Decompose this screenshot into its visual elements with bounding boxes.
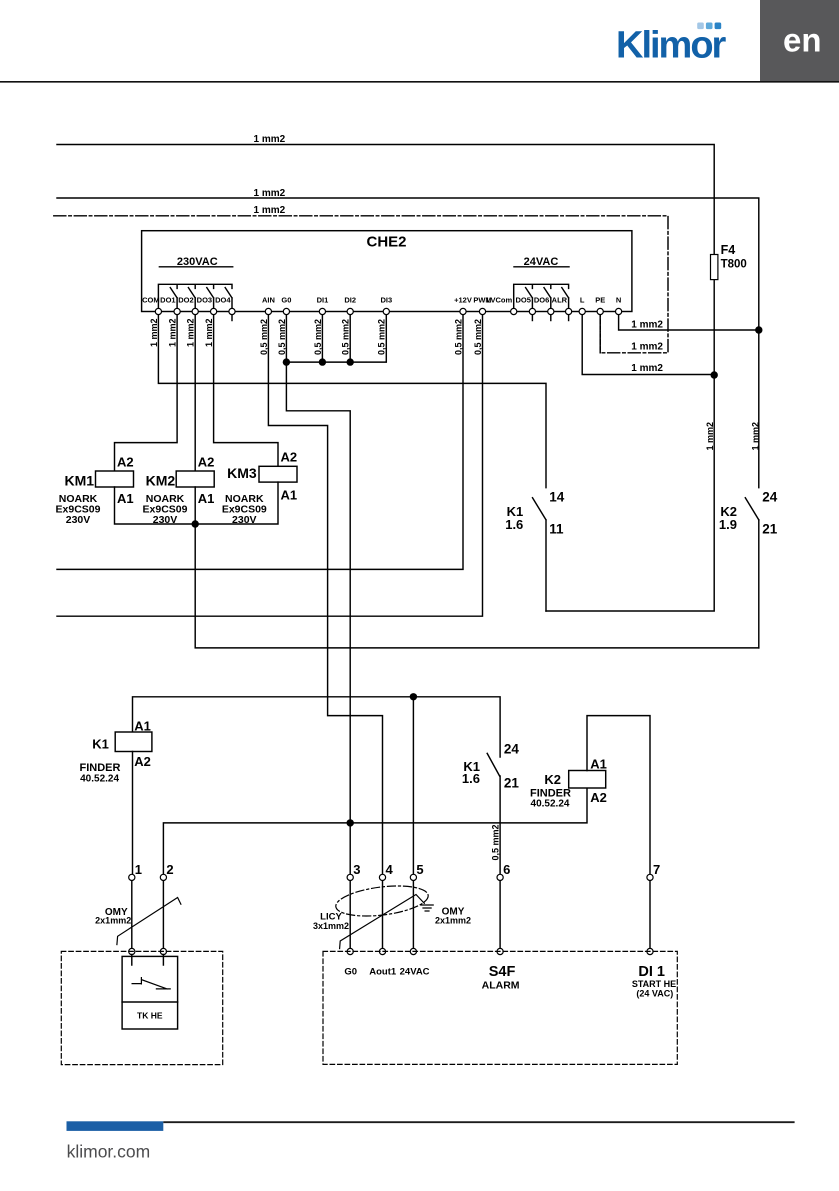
contactor KM2 coil [176, 471, 214, 487]
wire G0 to terminal 3 [286, 312, 350, 878]
svg-text:A2: A2 [281, 449, 298, 464]
wire L supply top 1 mm2 [57, 145, 714, 255]
terminal 5 circle [410, 874, 416, 880]
svg-text:11: 11 [549, 522, 564, 537]
wire KM coils A1 bus [115, 482, 759, 648]
svg-text:A1: A1 [134, 719, 151, 734]
svg-text:1 mm2: 1 mm2 [751, 422, 761, 451]
svg-text:en: en [783, 22, 822, 59]
DO1 contact blade [170, 288, 177, 312]
svg-text:KM3: KM3 [227, 465, 257, 481]
TKHE thermal contact symbol [132, 978, 170, 989]
wire L terminal to node 1 mm2 [582, 312, 714, 375]
svg-text:1 mm2: 1 mm2 [631, 320, 663, 331]
svg-text:ALARM: ALARM [482, 980, 520, 992]
earth shield symbol [421, 905, 433, 911]
DO2 contact blade [188, 288, 195, 312]
svg-text:14: 14 [549, 490, 565, 505]
node DI2 junction [347, 358, 354, 365]
svg-text:1 mm2: 1 mm2 [254, 205, 286, 216]
svg-text:A1: A1 [117, 491, 134, 506]
DO3 contact blade [207, 288, 214, 312]
LICY cable ellipse [334, 881, 430, 920]
ALR stub [568, 312, 570, 321]
svg-text:PE: PE [595, 295, 605, 304]
svg-text:1 mm2: 1 mm2 [186, 318, 196, 347]
wire N terminal to node 1 mm2 [619, 312, 759, 331]
cable marker OMY 2x1mm2 terminals 1-2 [117, 898, 181, 945]
24VAC underline [514, 266, 569, 268]
wire terminal 1 to external [131, 881, 133, 952]
wire terminal 5 branch [412, 697, 414, 878]
wire L below fuse to node [713, 280, 715, 375]
svg-text:1 mm2: 1 mm2 [254, 134, 286, 145]
terminal 1 circle [129, 874, 135, 880]
wire terminal 2 to external [162, 881, 164, 952]
wire PE dash-dot 1 mm2 [54, 216, 668, 353]
svg-text:6: 6 [503, 862, 510, 877]
svg-text:KM1: KM1 [65, 472, 95, 488]
node N junction [755, 326, 762, 333]
svg-text:Aout1: Aout1 [369, 967, 397, 978]
svg-text:1 mm2: 1 mm2 [254, 188, 286, 199]
wire +12V continuation 0,5 mm2 [57, 312, 463, 570]
svg-text:DO1: DO1 [160, 295, 175, 304]
svg-text:DO5: DO5 [515, 295, 530, 304]
terminal 7 circle [647, 874, 653, 880]
svg-text:24VAC: 24VAC [400, 967, 430, 978]
svg-text:AIN: AIN [262, 295, 275, 304]
svg-text:START HE: START HE [632, 979, 676, 989]
fuse F4 T800 [711, 255, 718, 280]
svg-text:0,5 mm2: 0,5 mm2 [473, 319, 483, 355]
svg-text:230VAC: 230VAC [177, 256, 218, 268]
external terminal 5 circle [410, 948, 416, 954]
terminal ALR pin circle [566, 308, 572, 314]
svg-text:7: 7 [653, 862, 660, 877]
svg-text:24: 24 [504, 742, 520, 757]
external terminal 2 circle [160, 948, 166, 954]
svg-text:0,5 mm2: 0,5 mm2 [491, 824, 501, 860]
svg-text:A2: A2 [198, 454, 215, 469]
svg-text:0,5 mm2: 0,5 mm2 [453, 319, 463, 355]
node L fuse junction [711, 371, 718, 378]
DO4 stub [231, 312, 233, 321]
wire AIN to terminal 4 [268, 312, 382, 878]
terminal N pin circle [616, 308, 622, 314]
footer bar [67, 1121, 164, 1131]
terminal +12V pin circle [460, 308, 466, 314]
K1 coil FINDER 40.52.24 [115, 732, 152, 752]
svg-text:0,5 mm2: 0,5 mm2 [259, 319, 269, 355]
wire DO2 to KM2 A2 [194, 312, 196, 472]
svg-text:A2: A2 [590, 790, 607, 805]
svg-text:0,5 mm2: 0,5 mm2 [341, 319, 351, 355]
svg-text:(24 VAC): (24 VAC) [636, 989, 673, 999]
wire G0 bus terminal 2 to K2 A2 [163, 788, 587, 877]
external terminal 7 circle [647, 948, 653, 954]
TKHE thermostat box [122, 956, 178, 1029]
Klimor logo [616, 23, 727, 67]
svg-text:1 mm2: 1 mm2 [168, 318, 178, 347]
terminal L pin circle [579, 308, 585, 314]
svg-text:COM: COM [142, 295, 160, 304]
terminal DO5 pin circle [529, 308, 535, 314]
svg-text:F4: F4 [721, 243, 736, 257]
svg-text:230V: 230V [153, 514, 178, 526]
terminal G0 pin circle [283, 308, 289, 314]
svg-text:2x1mm2: 2x1mm2 [95, 915, 131, 925]
CHE2 controller box [142, 231, 632, 312]
wire COM to K1 contact 14 [158, 312, 546, 488]
svg-text:40.52.24: 40.52.24 [80, 773, 119, 784]
svg-text:S4F: S4F [489, 964, 516, 980]
wire DO1 to KM1 A2 [115, 312, 178, 472]
K1 relay contact 1.6 lower [487, 753, 500, 877]
DO5 stub [531, 312, 533, 321]
svg-text:1.6: 1.6 [505, 517, 523, 532]
terminal DO1 pin circle [174, 308, 180, 314]
wire PE drop dashed [599, 312, 601, 353]
wire K2 contact 21 leg [758, 520, 760, 648]
relay output bracket 24VAC [514, 284, 569, 311]
svg-text:PWM: PWM [473, 295, 491, 304]
dashed enclosure TKHE unit [61, 951, 222, 1064]
terminal 6 circle [497, 874, 503, 880]
DO6 stub [550, 312, 552, 321]
relay output bracket 230VAC [158, 284, 232, 311]
svg-text:24VAC: 24VAC [524, 256, 559, 268]
terminal 4 circle [379, 874, 385, 880]
wire N supply top 1 mm2 [57, 198, 759, 488]
svg-text:1 mm2: 1 mm2 [705, 422, 715, 451]
svg-text:klimor.com: klimor.com [67, 1142, 151, 1162]
header rule [0, 81, 839, 83]
svg-text:230V: 230V [66, 514, 91, 526]
wire K2 coil A1 to terminal 7 [587, 716, 650, 878]
terminal DO6 pin circle [548, 308, 554, 314]
svg-text:Klimor: Klimor [616, 25, 727, 67]
node 24VAC terminal 5 junction [410, 693, 417, 700]
svg-text:1 mm2: 1 mm2 [631, 342, 663, 353]
svg-text:3x1mm2: 3x1mm2 [313, 921, 349, 931]
svg-text:2: 2 [166, 862, 173, 877]
svg-text:24: 24 [762, 490, 778, 505]
terminal DO4 pin circle [229, 308, 235, 314]
terminal COM pin circle [155, 308, 161, 314]
external terminal 4 circle [379, 948, 385, 954]
terminal 3 circle [347, 874, 353, 880]
svg-text:4: 4 [386, 862, 394, 877]
svg-text:2x1mm2: 2x1mm2 [435, 916, 471, 926]
DO4 contact blade [225, 288, 232, 312]
wire terminal 3 to external [349, 881, 351, 952]
wire TKHE leads [132, 955, 164, 966]
svg-text:1 mm2: 1 mm2 [149, 318, 159, 347]
svg-text:DO2: DO2 [178, 295, 193, 304]
svg-text:A1: A1 [281, 487, 298, 502]
wire DI jumper to G0 [286, 312, 386, 363]
wire 24VAC net K1 coil A1 to lower K1 contact [133, 697, 501, 757]
svg-text:CHE2: CHE2 [366, 233, 406, 250]
svg-text:21: 21 [762, 522, 778, 537]
svg-text:A2: A2 [117, 454, 134, 469]
K1 relay contact 1.6 upper [533, 498, 547, 611]
node G0 terminal 3 junction [347, 819, 354, 826]
svg-text:T800: T800 [721, 259, 747, 271]
svg-text:40.52.24: 40.52.24 [531, 799, 570, 810]
terminal DI3 pin circle [383, 308, 389, 314]
svg-text:5: 5 [416, 862, 423, 877]
terminal 2 circle [160, 874, 166, 880]
footer rule [163, 1121, 794, 1123]
svg-text:DO6: DO6 [534, 295, 549, 304]
DO6 contact blade [544, 288, 551, 312]
svg-text:ALR: ALR [552, 295, 568, 304]
external terminal 1 circle [129, 948, 135, 954]
cable marker LICY terminals 3-4-5 [340, 895, 425, 949]
svg-text:1.6: 1.6 [462, 771, 480, 786]
node KM A1 junction [192, 520, 199, 527]
svg-text:DO4: DO4 [215, 295, 231, 304]
terminal AIN pin circle [265, 308, 271, 314]
terminal DO2 pin circle [192, 308, 198, 314]
DO5 contact blade [526, 288, 533, 312]
dashed enclosure external devices [323, 951, 677, 1064]
language tab en [760, 0, 839, 81]
svg-text:DO3: DO3 [197, 295, 212, 304]
terminal PWM pin circle [479, 308, 485, 314]
svg-text:A2: A2 [134, 754, 151, 769]
svg-text:1: 1 [135, 862, 142, 877]
wire terminal 4 to external [382, 881, 384, 952]
contactor KM3 coil [259, 466, 297, 482]
svg-text:KM2: KM2 [146, 472, 176, 488]
external terminal 3 circle [347, 948, 353, 954]
node G0 junction [283, 358, 290, 365]
svg-text:N: N [616, 295, 621, 304]
K2 coil FINDER 40.52.24 [569, 771, 606, 789]
svg-text:1 mm2: 1 mm2 [631, 363, 663, 374]
svg-text:TK HE: TK HE [137, 1011, 163, 1021]
230VAC underline [159, 266, 232, 268]
wire DO3 to KM3 A2 [214, 312, 278, 467]
svg-text:DI 1: DI 1 [638, 964, 665, 980]
K2 relay contact 1.9 [745, 498, 759, 520]
svg-text:3: 3 [353, 862, 360, 877]
svg-text:0,5 mm2: 0,5 mm2 [377, 319, 387, 355]
svg-text:A1: A1 [198, 491, 215, 506]
svg-text:0,5 mm2: 0,5 mm2 [313, 319, 323, 355]
terminal LVCom pin circle [511, 308, 517, 314]
wire L node down to K1 contact 11 [546, 375, 714, 611]
svg-text:DI1: DI1 [317, 295, 329, 304]
svg-text:+12V: +12V [454, 295, 472, 304]
wire terminal 7 to external [649, 881, 651, 952]
svg-text:DI2: DI2 [344, 295, 356, 304]
svg-text:K2: K2 [544, 772, 561, 787]
contactor KM1 coil [96, 471, 134, 487]
svg-text:L: L [580, 295, 585, 304]
svg-text:1.9: 1.9 [719, 517, 737, 532]
svg-text:0,5 mm2: 0,5 mm2 [277, 319, 287, 355]
svg-text:21: 21 [504, 776, 520, 791]
terminal PE pin circle [597, 308, 603, 314]
svg-text:FINDER: FINDER [80, 762, 121, 774]
svg-text:K1: K1 [92, 737, 109, 752]
ALR contact blade [562, 288, 569, 312]
wire K1 coil A2 to terminal 1 [132, 752, 134, 878]
svg-text:G0: G0 [281, 295, 291, 304]
svg-text:A1: A1 [590, 757, 607, 772]
svg-text:1 mm2: 1 mm2 [204, 318, 214, 347]
terminal DO3 pin circle [211, 308, 217, 314]
svg-text:230V: 230V [232, 514, 257, 526]
wire PWM continuation 0,5 mm2 [57, 312, 483, 617]
external terminal 6 circle [497, 948, 503, 954]
terminal DI2 pin circle [347, 308, 353, 314]
wire terminal 5 to external [412, 881, 414, 952]
wire terminal 6 to external [499, 881, 501, 952]
node DI1 junction [319, 358, 326, 365]
svg-text:G0: G0 [344, 967, 357, 978]
terminal DI1 pin circle [319, 308, 325, 314]
wire DI1 [321, 312, 323, 363]
wire DI2 [349, 312, 351, 363]
svg-text:DI3: DI3 [380, 295, 392, 304]
